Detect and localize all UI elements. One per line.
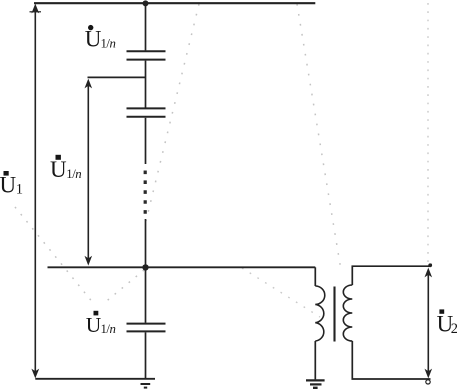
wire: C1 to C2 <box>145 61 147 108</box>
dimension arrow U1/n (middle) <box>85 79 93 266</box>
junction node: bus / divider column <box>143 0 149 6</box>
dimension arrow U1 (left, full height) <box>30 4 42 379</box>
capacitor C3 <box>127 324 166 332</box>
dotted projection line E (tap junction to bottom U1/n label) <box>103 270 144 304</box>
svg-text:2: 2 <box>451 321 457 337</box>
transformer primary winding T1 <box>315 286 324 341</box>
svg-text:U: U <box>85 27 102 52</box>
dotted projection line B (bus to transformer top) <box>297 4 341 267</box>
label U1/n (middle) <box>50 155 81 182</box>
dotted projection line D (U1 label to bottom U1/n label) <box>15 207 94 304</box>
wire: below C2 <box>145 118 147 164</box>
junction node: divider tap <box>142 264 148 270</box>
capacitor C2 <box>127 108 166 116</box>
label U2 <box>437 309 457 336</box>
wire: dimension tap line <box>88 76 146 78</box>
dimension arrow U2 <box>425 263 433 384</box>
transformer core <box>333 287 335 342</box>
wire: primary bottom lead <box>314 341 316 379</box>
label U1/n (top) <box>85 25 116 52</box>
transformer secondary winding <box>343 285 352 341</box>
svg-text:1/n: 1/n <box>66 167 81 181</box>
wire: main horizontal tap bus <box>48 266 316 268</box>
svg-text:1/n: 1/n <box>101 37 116 51</box>
ground (transformer primary) <box>306 380 325 387</box>
svg-text:U: U <box>0 173 17 198</box>
wire: secondary top lead <box>352 266 430 285</box>
svg-text:1/n: 1/n <box>101 322 116 336</box>
dotted projection line A (bus to divider break) <box>146 4 199 221</box>
label U1/n (bottom) <box>86 311 116 337</box>
label U1 <box>0 171 23 198</box>
svg-text:U: U <box>50 157 67 182</box>
wire: bottom line (ground bar) <box>35 378 155 380</box>
dotted projection line F (tap bus to primary winding) <box>242 268 320 317</box>
wire: primary top lead <box>314 267 316 286</box>
capacitor C1 <box>127 51 166 59</box>
wire: secondary bottom lead <box>352 341 430 379</box>
wire: top HV bus <box>34 2 315 4</box>
wire: bus to C1 <box>145 3 147 50</box>
dotted projection line C (vertical at right) <box>427 3 429 263</box>
wire: tap junction to C3 <box>145 267 147 322</box>
svg-text:U: U <box>86 313 102 337</box>
svg-text:1: 1 <box>16 182 23 198</box>
wire: C3 to bottom line <box>145 332 147 379</box>
ground (below C3) <box>141 384 151 388</box>
wire: column above tap junction <box>145 219 147 267</box>
wire: dotted continuation of divider column <box>144 171 147 217</box>
